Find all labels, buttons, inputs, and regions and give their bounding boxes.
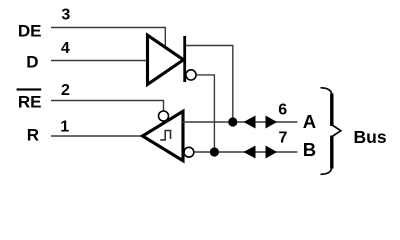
svg-text:7: 7	[279, 129, 288, 146]
svg-text:RE: RE	[18, 93, 42, 112]
receiver enable bubble (RE)	[159, 111, 169, 121]
driver enable bar	[183, 36, 186, 82]
driver inverting output bubble	[186, 70, 196, 80]
svg-text:DE: DE	[18, 22, 42, 41]
wire R (pin 1)	[51, 135, 143, 137]
svg-text:Bus: Bus	[354, 127, 387, 147]
bus arrowhead left (B)	[244, 146, 256, 159]
junction dot node B	[210, 147, 219, 156]
svg-text:D: D	[26, 53, 38, 72]
svg-text:1: 1	[60, 119, 69, 136]
wire driver inverting output to B node	[196, 75, 214, 152]
wire bus line A	[182, 121, 298, 123]
svg-text:4: 4	[61, 40, 70, 57]
bus arrowhead right (A)	[266, 116, 278, 129]
receiver inverting input bubble	[184, 147, 194, 157]
wire DE (pin 3)	[51, 28, 165, 47]
wire bus line B	[194, 151, 297, 153]
svg-text:3: 3	[61, 7, 70, 24]
bus arrowhead right (B)	[266, 146, 278, 159]
junction dot node A	[228, 117, 237, 126]
svg-text:2: 2	[61, 82, 70, 99]
brace for Bus	[321, 88, 341, 175]
svg-text:6: 6	[278, 101, 287, 118]
svg-text:R: R	[27, 126, 39, 145]
wire D (pin 4)	[51, 60, 148, 62]
receiver triangle R1	[143, 111, 184, 160]
svg-text:A: A	[303, 111, 316, 132]
svg-text:B: B	[303, 139, 316, 160]
bus arrowhead left (A)	[244, 116, 256, 129]
wire RE (pin 2)	[51, 101, 164, 111]
hysteresis symbol	[160, 131, 170, 140]
overline on RE	[17, 88, 42, 90]
driver triangle D1	[148, 35, 184, 84]
wire driver noninverting output to A node	[186, 46, 233, 123]
